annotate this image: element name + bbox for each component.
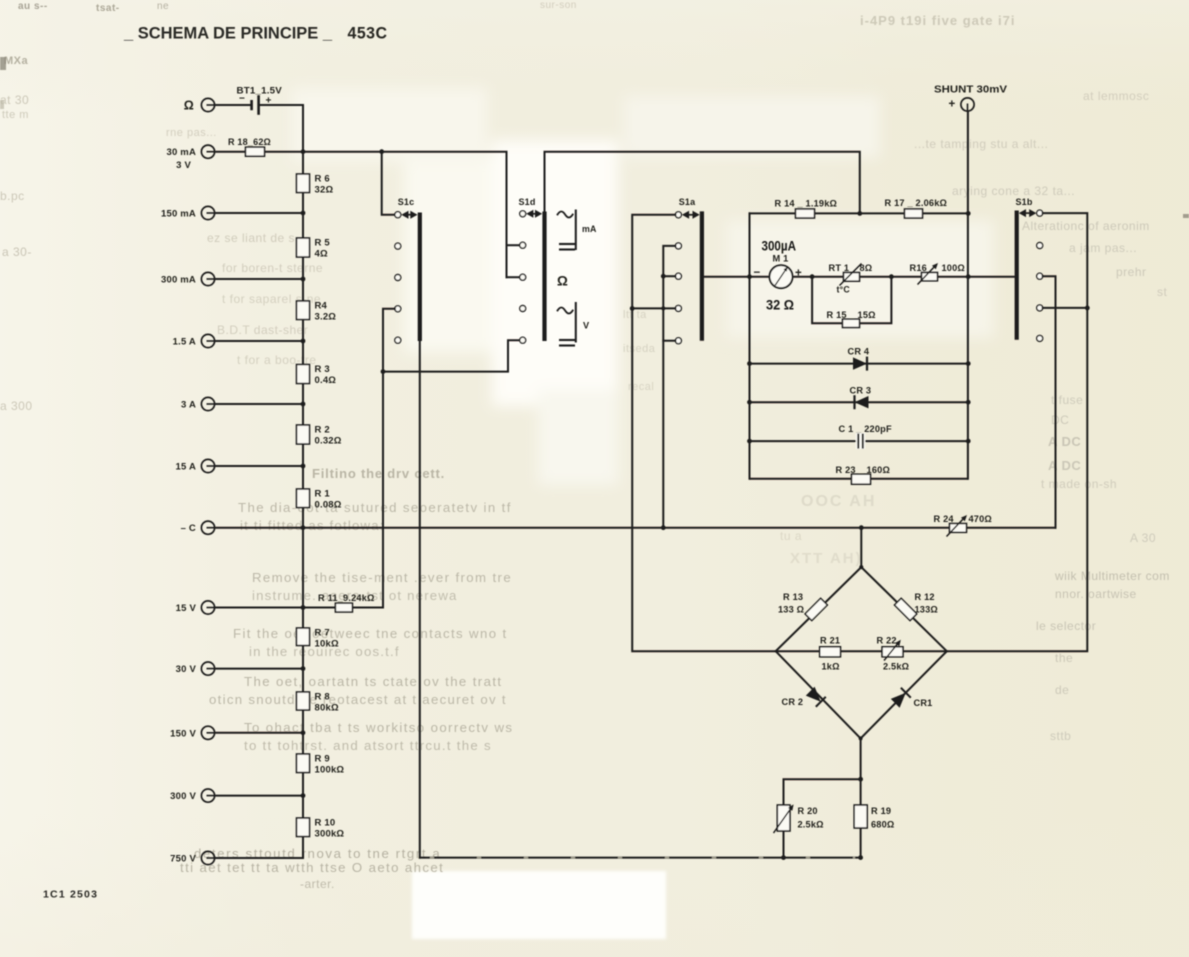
svg-text:R 10: R 10: [315, 818, 336, 829]
resistor R11 9.24k: [335, 603, 352, 612]
svg-text:R 24: R 24: [934, 514, 955, 524]
symbol DC (V): [559, 339, 575, 341]
svg-text:R 23 _ 160Ω: R 23 _ 160Ω: [836, 465, 891, 475]
wire: RT1 node to S1b bar: [891, 276, 1015, 278]
switch S1c bar: [418, 213, 422, 342]
wire: bridge center line: [776, 650, 947, 652]
terminal 30 V: [201, 662, 214, 675]
junction: bridge north node: [859, 565, 863, 569]
junction: bottom rail dots: [781, 855, 786, 860]
resistor R13 133ohm: [805, 598, 827, 620]
svg-text:300kΩ: 300kΩ: [315, 829, 345, 840]
svg-text:R 15 _ 15Ω: R 15 _ 15Ω: [827, 310, 876, 320]
wire: 750 V line: [215, 857, 303, 859]
svg-text:R 11_9.24kΩ: R 11_9.24kΩ: [318, 593, 375, 603]
svg-text:0.08Ω: 0.08Ω: [315, 500, 342, 511]
wire: 300 mA line: [215, 278, 303, 280]
svg-text:150 mA: 150 mA: [161, 209, 196, 220]
diode CR2: [806, 687, 821, 702]
svg-text:−: −: [754, 267, 761, 279]
junction: R20 branch node: [858, 777, 863, 782]
svg-text:CR 3: CR 3: [850, 386, 872, 396]
svg-text:i-4P9 t19i five gate i7i: i-4P9 t19i five gate i7i: [860, 13, 1016, 28]
svg-text:+: +: [266, 96, 272, 107]
svg-text:3 V: 3 V: [176, 160, 191, 171]
svg-text:CR1: CR1: [914, 698, 933, 708]
terminal – C: [201, 521, 214, 534]
svg-text:ltt ta: ltt ta: [623, 309, 647, 321]
resistor R 1 0.08Ω: [297, 489, 310, 508]
svg-text:prehr: prehr: [1116, 265, 1147, 279]
symbol AC (V): [558, 308, 573, 314]
terminal 3 A: [201, 397, 214, 410]
variable resistor R22 2.5k: [882, 647, 903, 657]
svg-text:Filtino the drv cett.: Filtino the drv cett.: [312, 466, 445, 481]
terminal Ω: [201, 98, 214, 111]
svg-text:1kΩ: 1kΩ: [822, 662, 840, 672]
junction: meter line at left rail: [747, 274, 752, 279]
svg-text:32Ω: 32Ω: [315, 185, 334, 196]
svg-text:M 1: M 1: [773, 254, 789, 264]
svg-text:133Ω: 133Ω: [915, 605, 939, 615]
resistor R17 2.06k: [905, 209, 923, 218]
battery BT1 1.5V: [250, 100, 253, 110]
svg-text:b.pc: b.pc: [0, 189, 25, 203]
terminal 1.5 A: [201, 334, 214, 347]
svg-text:mA: mA: [582, 224, 597, 234]
switch S1c contacts: [395, 212, 401, 218]
diode CR4: [853, 357, 867, 369]
svg-text:a 300: a 300: [0, 399, 33, 413]
svg-text:de: de: [1055, 683, 1069, 697]
svg-text:a jam pas...: a jam pas...: [1069, 241, 1137, 255]
svg-text:MXa: MXa: [4, 55, 29, 67]
junction dots on bus: [301, 149, 306, 154]
svg-text:R 21: R 21: [820, 636, 840, 646]
wire: 30mA line to S1d branch: [215, 152, 507, 278]
resistor R21 1k: [820, 647, 841, 657]
wire: riser to S1d contact5 (y371 link): [383, 340, 520, 371]
wire: CR3 row: [750, 401, 969, 403]
svg-text:R 5: R 5: [315, 238, 331, 249]
resistor R 8 80kΩ: [297, 692, 310, 710]
svg-text:sttb: sttb: [1050, 729, 1071, 743]
svg-text:The dia-oot ta sutured seoe: The dia-oot ta sutured seoeratetv in tf: [238, 500, 512, 515]
switch S1b wiper arrow: [1021, 212, 1035, 214]
svg-text:453C: 453C: [348, 25, 388, 43]
svg-text:R 2: R 2: [315, 425, 330, 436]
wire: 1.5 A line: [215, 340, 303, 342]
svg-text:10kΩ: 10kΩ: [315, 639, 339, 650]
wire: R14-R17 line: [750, 212, 969, 214]
svg-text:R 6: R 6: [315, 174, 330, 185]
wire: 3 A line: [215, 403, 303, 405]
switch S1c wiper arrow: [403, 214, 415, 216]
svg-text:rne pas...: rne pas...: [166, 127, 217, 139]
svg-text:R 7: R 7: [315, 628, 330, 639]
wire: riser to bridge north: [860, 528, 862, 567]
junction: CR4 row dots: [747, 361, 752, 366]
svg-text:tu a: tu a: [780, 529, 802, 543]
junction: bridge south node: [859, 736, 863, 740]
svg-text:750 V: 750 V: [170, 854, 196, 865]
svg-text:3.2Ω: 3.2Ω: [315, 312, 337, 323]
wire: S1a contact2/5 rail to -C line: [663, 246, 675, 528]
symbol DC (mA): [559, 243, 575, 245]
resistor R 6 32Ω: [297, 174, 310, 193]
svg-text:ne: ne: [157, 1, 169, 12]
wire: 300 V line: [215, 795, 303, 797]
wire: RT1 block frame: [812, 276, 891, 278]
capacitor C1 220pF: [856, 433, 865, 449]
wire: bus vertical (main divider chain): [302, 105, 304, 858]
resistor R 5 4Ω: [297, 238, 310, 257]
resistor R23 160ohm: [852, 474, 871, 484]
svg-text:R4: R4: [315, 301, 328, 312]
svg-text:V: V: [583, 321, 590, 331]
svg-text:BT1_1.5V: BT1_1.5V: [237, 86, 283, 97]
switch S1b contacts: [1037, 210, 1043, 216]
wire: S1b contact4 stub: [1043, 307, 1088, 309]
resistor R 2 0.32Ω: [297, 425, 310, 444]
svg-text:2.5kΩ: 2.5kΩ: [798, 820, 824, 830]
svg-text:for boren-t sterne: for boren-t sterne: [222, 261, 323, 275]
resistor R 10 300kΩ: [297, 818, 310, 837]
svg-text:Fit the oe, oetweec tne con: Fit the oe, oetweec tne contacts wno t: [233, 626, 508, 641]
svg-text:680Ω: 680Ω: [871, 820, 895, 830]
svg-text:300µA: 300µA: [762, 239, 797, 254]
junction: S1a rail dots: [661, 274, 666, 279]
resistor R 9 100kΩ: [297, 754, 310, 773]
svg-text:the: the: [1055, 651, 1073, 665]
terminal 300 mA: [201, 272, 214, 285]
svg-text:CR 4: CR 4: [848, 347, 870, 357]
svg-text:0.4Ω: 0.4Ω: [315, 375, 337, 386]
terminal 15 A: [201, 459, 214, 472]
svg-text:133 Ω: 133 Ω: [778, 605, 804, 615]
terminal 300 V: [201, 789, 214, 802]
svg-text:30 mA: 30 mA: [166, 147, 196, 158]
svg-text:R 14 _ 1.19kΩ: R 14 _ 1.19kΩ: [775, 199, 838, 209]
svg-text:A 30: A 30: [1130, 531, 1156, 545]
svg-text:to tt tohtrst. and atsort: to tt tohtrst. and atsort ttrcu.t the s: [244, 738, 492, 753]
wire: S1a contact4 stub: [632, 307, 675, 309]
wire: battery line (omega terminal to bus): [215, 104, 251, 106]
wire: bridge diamond: [776, 567, 947, 738]
svg-text:a 30-: a 30-: [2, 245, 32, 259]
wire: meter to RT1 node: [793, 276, 813, 278]
svg-text:R 17 _ 2.06kΩ: R 17 _ 2.06kΩ: [885, 198, 948, 208]
wire: S1a contact3 stub: [663, 275, 675, 277]
terminal SHUNT: [961, 98, 974, 111]
terminal 150 V: [201, 726, 214, 739]
svg-text:+: +: [949, 99, 956, 111]
wire: left rail of diode block: [749, 213, 751, 478]
svg-text:Alterationc of aeronim: Alterationc of aeronim: [1022, 219, 1150, 233]
svg-text:at 30: at 30: [0, 93, 29, 107]
junction: CR3 row dots: [747, 400, 752, 405]
svg-text:R 19: R 19: [871, 806, 891, 816]
variable resistor R20 2.5k: [777, 805, 790, 831]
resistor R 7 10kΩ: [297, 628, 310, 646]
svg-text:R 12: R 12: [915, 592, 935, 602]
svg-text:oticn snoutd be reotacest a: oticn snoutd be reotacest at t aecuret o…: [209, 692, 507, 707]
svg-text:R 18_62Ω: R 18_62Ω: [228, 137, 271, 147]
svg-text:t°C: t°C: [837, 285, 851, 295]
svg-text:3 A: 3 A: [181, 400, 196, 411]
wire: 15 A line: [215, 465, 303, 467]
svg-text:S1a: S1a: [679, 197, 696, 207]
resistor R19 680ohm: [854, 805, 867, 828]
svg-text:100kΩ: 100kΩ: [315, 765, 345, 776]
svg-text:1.5 A: 1.5 A: [173, 337, 196, 348]
svg-text:32 Ω: 32 Ω: [766, 298, 794, 313]
svg-text:80kΩ: 80kΩ: [315, 703, 339, 714]
meter M1 circle: [770, 265, 793, 288]
svg-text:2.5kΩ: 2.5kΩ: [883, 662, 909, 672]
resistor R4 3.2Ω: [297, 301, 310, 320]
svg-text:at lemmosc: at lemmosc: [1083, 89, 1149, 103]
junction: riser T at y371: [381, 369, 386, 374]
diode CR3: [855, 396, 869, 408]
svg-text:_ SCHEMA DE PRINCIPE _: _ SCHEMA DE PRINCIPE _: [123, 25, 333, 43]
diode CR1: [891, 693, 906, 708]
wire: S1a bar output to meter: [702, 276, 770, 278]
svg-text:S1b: S1b: [1015, 197, 1032, 207]
svg-text:R 22: R 22: [877, 636, 897, 646]
svg-text:S1c: S1c: [398, 197, 415, 207]
svg-text:t made on-sh: t made on-sh: [1041, 477, 1117, 491]
switch S1d contacts: [520, 211, 526, 217]
svg-text:0.32Ω: 0.32Ω: [315, 436, 342, 447]
junction: S1a rail on -C line: [661, 525, 666, 530]
svg-text:it ti fitted as fotlowa:: it ti fitted as fotlowa:: [240, 518, 385, 533]
svg-text:A DC: A DC: [1048, 434, 1081, 449]
terminal 150 mA: [201, 206, 214, 219]
svg-text:OOC AH: OOC AH: [801, 493, 876, 510]
switch S1d wiper arrow: [528, 213, 540, 215]
svg-text:arying cone a 32 ta...: arying cone a 32 ta...: [952, 184, 1075, 198]
wire: S1c contact4 to riser: [383, 309, 395, 372]
svg-text:-arter.: -arter.: [300, 877, 335, 891]
junction: R16 line at right rail: [966, 274, 971, 279]
svg-text:100Ω: 100Ω: [942, 263, 966, 273]
svg-text:15 A: 15 A: [175, 462, 196, 473]
resistor R 3 0.4Ω: [297, 365, 310, 384]
svg-text:DC: DC: [1051, 413, 1069, 427]
svg-text:nnor. oartwise: nnor. oartwise: [1055, 587, 1137, 601]
junction: RT1 block ends: [810, 274, 815, 279]
wire: 15V line through R11 riser: [215, 372, 383, 608]
wire: 30 V line: [215, 668, 303, 670]
svg-text:R 8: R 8: [315, 692, 330, 703]
svg-text:tsat-: tsat-: [96, 3, 120, 14]
switch S1a wiper arrow: [684, 214, 698, 216]
junction: C1 row dots: [747, 439, 752, 444]
svg-text:R 13: R 13: [783, 592, 803, 602]
resistor R12 133ohm: [894, 598, 916, 620]
wire: -C / R24 line: [215, 527, 1056, 529]
wire: bottom rail: [420, 857, 861, 859]
resistor R15 15ohm: [843, 319, 860, 327]
wire: S1d bar output up and right to R14/R17 node: [545, 152, 860, 214]
wire: CR4 row: [750, 363, 969, 365]
wire: S1d contact stubs: [507, 244, 520, 246]
switch S1a contacts: [675, 212, 681, 218]
junction: 30mA line at S1c branch: [379, 149, 384, 154]
wire: S1a contact1 down to bridge west: [632, 215, 776, 651]
svg-text:8Ω: 8Ω: [860, 263, 873, 273]
svg-text:R16: R16: [910, 263, 927, 273]
resistor R14 1.19k: [796, 209, 815, 218]
svg-text:The oet, oartatn ts ctate: The oet, oartatn ts ctate ov the tratt: [244, 674, 502, 689]
svg-text:4Ω: 4Ω: [315, 249, 328, 260]
terminal 30 mA: [201, 145, 214, 158]
svg-text:30 V: 30 V: [176, 664, 197, 675]
svg-text:300 V: 300 V: [170, 791, 196, 802]
wire: bridge south to bottom rail: [860, 738, 862, 857]
wire: 150 V line: [215, 732, 303, 734]
svg-text:470Ω: 470Ω: [969, 514, 993, 524]
svg-text:150 V: 150 V: [170, 728, 196, 739]
svg-text:– C: – C: [181, 523, 196, 534]
svg-text:CR 2: CR 2: [782, 697, 804, 707]
svg-text:RT 1: RT 1: [829, 263, 850, 273]
wire: 150 mA line: [215, 212, 303, 214]
meter needle: [775, 269, 786, 286]
svg-text:tti aet tet tt ta wtth t: tti aet tet tt ta wtth ttse O aeto ahcet: [180, 860, 444, 875]
terminal 750 V: [201, 851, 214, 864]
svg-text:S1d: S1d: [518, 197, 535, 207]
svg-text:...te tamping stu a alt...: ...te tamping stu a alt...: [914, 137, 1048, 151]
svg-text:R 20: R 20: [798, 806, 818, 816]
svg-text:tte m: tte m: [2, 109, 29, 121]
svg-text:Ω: Ω: [184, 99, 194, 113]
wire: S1b contact1 down to bridge east: [947, 213, 1088, 651]
wire: S1c top contact feed: [382, 152, 395, 215]
svg-text:R 9: R 9: [315, 754, 330, 765]
wire: R20 branch: [784, 779, 861, 857]
svg-text:st: st: [1157, 285, 1168, 299]
thermistor RT1 8ohm: [844, 273, 860, 282]
svg-text:Ω: Ω: [557, 274, 568, 289]
terminal 15 V: [201, 601, 214, 614]
bracket V range: [575, 302, 577, 343]
svg-text:A DC: A DC: [1048, 458, 1081, 473]
wire: shunt rail down (right rail of diode block): [967, 111, 969, 479]
junction: bridge riser on -C line: [859, 525, 864, 530]
wire: C1 row: [750, 440, 969, 442]
svg-text:au s--: au s--: [18, 1, 48, 12]
symbol AC (mA): [558, 212, 573, 218]
svg-text:XTT AH): XTT AH): [790, 550, 863, 567]
switch S1d bar: [542, 212, 546, 342]
svg-text:C 1 _ 220pF: C 1 _ 220pF: [839, 424, 892, 434]
svg-text:sur-son: sur-son: [540, 0, 577, 11]
bracket mA range: [575, 210, 577, 251]
resistor R18 62ohm: [246, 147, 265, 156]
wire: R23 row: [750, 478, 969, 480]
variable resistor R24 470ohm: [950, 524, 967, 533]
svg-text:SHUNT 30mV: SHUNT 30mV: [934, 84, 1007, 96]
svg-text:B.D.T dast-sher: B.D.T dast-sher: [217, 323, 308, 337]
wire: S1b contact3 to R24 line: [1043, 276, 1056, 528]
svg-text:itseda: itseda: [623, 343, 656, 355]
svg-text:R 1: R 1: [315, 489, 331, 500]
svg-text:ez se liant de s: ez se liant de s: [207, 231, 295, 245]
junction: S1b contact4 on east riser: [1085, 306, 1090, 311]
wire: S1c bar down to bottom rail: [419, 341, 421, 858]
junction: R17 at shunt rail: [966, 211, 971, 216]
variable resistor R16 100ohm: [922, 273, 938, 281]
svg-text:1C1 2503: 1C1 2503: [43, 889, 98, 901]
svg-text:300 mA: 300 mA: [161, 275, 196, 286]
switch S1b bar: [1015, 211, 1019, 340]
switch S1a bar: [700, 211, 704, 340]
svg-text:wiik Multimeter com: wiik Multimeter com: [1054, 569, 1170, 583]
junction: R14/R17 node: [857, 211, 862, 216]
svg-text:R 3: R 3: [315, 364, 330, 375]
svg-text:15 V: 15 V: [176, 603, 197, 614]
